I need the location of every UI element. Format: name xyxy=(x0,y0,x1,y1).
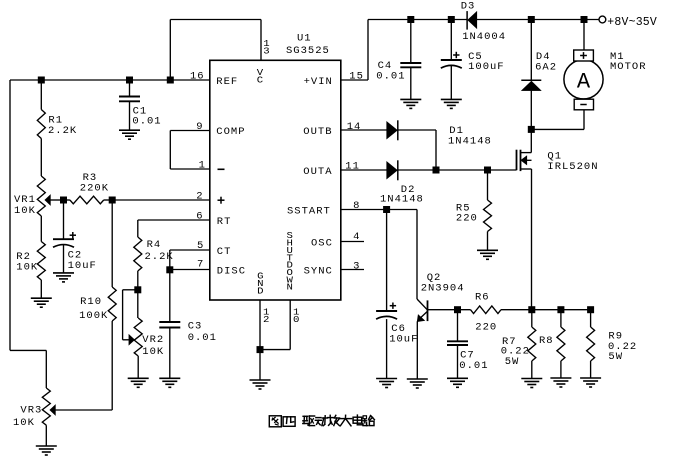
svg-text:2: 2 xyxy=(263,314,270,325)
svg-text:R8: R8 xyxy=(539,335,554,347)
svg-text:VR3: VR3 xyxy=(20,404,42,416)
svg-text:2: 2 xyxy=(196,190,203,202)
svg-text:1N4148: 1N4148 xyxy=(380,194,424,206)
svg-text:+8V~35V: +8V~35V xyxy=(607,16,657,29)
svg-text:8: 8 xyxy=(353,200,360,212)
svg-text:OSC: OSC xyxy=(311,238,333,250)
svg-text:D3: D3 xyxy=(461,1,476,13)
svg-text:0.01: 0.01 xyxy=(188,332,217,344)
svg-text:D: D xyxy=(257,285,264,296)
svg-text:C3: C3 xyxy=(188,320,203,332)
svg-text:11: 11 xyxy=(345,160,360,172)
svg-text:6: 6 xyxy=(196,210,203,222)
svg-text:5W: 5W xyxy=(608,351,623,363)
svg-text:SSTART: SSTART xyxy=(287,206,331,218)
svg-text:100uF: 100uF xyxy=(468,61,505,73)
svg-text:0.01: 0.01 xyxy=(459,360,488,372)
svg-text:R6: R6 xyxy=(475,292,490,304)
svg-text:DISC: DISC xyxy=(217,266,246,278)
svg-text:5W: 5W xyxy=(505,356,520,368)
svg-text:1N4148: 1N4148 xyxy=(448,136,492,148)
svg-text:5: 5 xyxy=(197,240,204,252)
svg-text:0: 0 xyxy=(293,314,300,325)
svg-text:SYNC: SYNC xyxy=(304,266,333,278)
svg-text:14: 14 xyxy=(347,121,362,133)
svg-text:220K: 220K xyxy=(80,182,109,194)
svg-text:REF: REF xyxy=(216,76,238,88)
svg-text:10K: 10K xyxy=(16,262,38,274)
svg-text:0.01: 0.01 xyxy=(132,116,161,128)
svg-text:10K: 10K xyxy=(142,346,164,358)
svg-text:3: 3 xyxy=(353,261,360,273)
svg-text:1: 1 xyxy=(199,159,206,171)
svg-text:1N4004: 1N4004 xyxy=(462,31,506,43)
svg-text:OUTA: OUTA xyxy=(303,166,332,178)
svg-text:220: 220 xyxy=(475,322,497,334)
svg-text:2.2K: 2.2K xyxy=(48,125,77,137)
svg-text:10K: 10K xyxy=(14,205,36,217)
svg-text:N: N xyxy=(287,282,293,293)
svg-text:10K: 10K xyxy=(13,417,35,429)
svg-text:2N3904: 2N3904 xyxy=(421,283,465,295)
svg-text:220: 220 xyxy=(456,213,478,225)
svg-text:VR2: VR2 xyxy=(142,334,164,346)
svg-text:10uF: 10uF xyxy=(68,260,97,272)
svg-text:MOTOR: MOTOR xyxy=(610,61,647,73)
svg-text:6A2: 6A2 xyxy=(535,62,557,74)
svg-text:COMP: COMP xyxy=(216,126,245,138)
svg-text:A: A xyxy=(577,70,591,95)
svg-text:OUTB: OUTB xyxy=(303,126,332,138)
svg-text:9: 9 xyxy=(196,121,203,133)
svg-text:10uF: 10uF xyxy=(389,334,418,346)
svg-text:R4: R4 xyxy=(147,239,162,251)
svg-text:SG3525: SG3525 xyxy=(286,45,330,57)
svg-text:U1: U1 xyxy=(297,33,312,45)
svg-text:R10: R10 xyxy=(80,296,102,308)
svg-text:4: 4 xyxy=(353,231,360,243)
svg-text:15: 15 xyxy=(349,70,364,82)
svg-text:C: C xyxy=(257,75,264,86)
svg-text:+VIN: +VIN xyxy=(304,76,333,88)
svg-text:RT: RT xyxy=(217,216,232,228)
svg-text:IRL520N: IRL520N xyxy=(547,161,598,173)
svg-text:16: 16 xyxy=(190,70,205,82)
svg-text:7: 7 xyxy=(197,259,204,271)
svg-text:0.01: 0.01 xyxy=(376,71,405,83)
svg-text:3: 3 xyxy=(263,46,270,57)
svg-text:CT: CT xyxy=(217,246,232,258)
svg-text:100K: 100K xyxy=(79,310,108,322)
svg-text:2.2K: 2.2K xyxy=(145,251,174,263)
